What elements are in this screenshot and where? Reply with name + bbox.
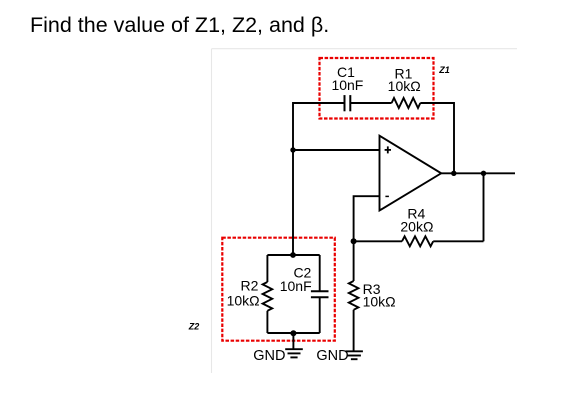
wire: noninverting input [293,149,380,151]
svg-text:GND: GND [316,348,348,364]
wire: R4 left lead [354,240,402,242]
C2 reference label [293,264,311,280]
node label Z1 [438,65,450,75]
wire: R2 top lead [266,255,268,282]
svg-text:R2: R2 [241,277,259,293]
wire: left vertical main [292,150,294,255]
GND label left [253,348,285,364]
C2 value label 10nF [280,278,312,294]
resistor R2 [263,282,273,311]
wire: R4 branch vertical [483,173,485,241]
wire: R3 bottom lead [353,310,355,352]
C1 value label 10nF [331,77,363,93]
C1 reference label [337,64,355,80]
R2 value label 10kΩ [227,292,260,308]
R1 value label 10kΩ [388,78,421,94]
capacitor C2 [311,291,329,297]
R3 reference label [363,281,381,297]
svg-text:Find the value of Z1, Z2, and: Find the value of Z1, Z2, and β. [30,13,329,37]
wire: R1 to feedback corner down to output [420,103,454,173]
svg-text:20kΩ: 20kΩ [400,218,433,234]
wire: output [441,172,515,174]
wire: R4 right lead [433,240,483,242]
node: inverting feedback junction [351,238,357,244]
GND label right [316,348,348,364]
node: output junction at feedback [451,171,456,176]
node: noninverting input junction [290,147,295,152]
ground symbol left [285,349,303,357]
op-amp minus pin mark [385,195,389,197]
svg-text:Z1: Z1 [438,65,450,75]
wire: Z2 network top [267,254,319,256]
R3 value label 10kΩ [363,293,396,309]
node label Z2 [188,322,200,332]
node: Z2 top junction [290,252,296,258]
wire: C2 bottom lead [319,297,321,333]
wire: inverting input [354,196,380,241]
R2 reference label [241,277,259,293]
R4 reference label [407,206,425,222]
node: output junction at R4 branch [481,171,486,176]
wire: C2 top lead [319,255,321,291]
svg-text:10nF: 10nF [280,278,312,294]
svg-text:10kΩ: 10kΩ [363,293,396,309]
svg-text:10nF: 10nF [331,77,363,93]
ground symbol right [346,351,363,359]
wire: C1 to R1 [350,102,391,104]
wire: feedback vertical left segment [293,103,345,150]
R4 value label 20kΩ [400,218,433,234]
node: Z2 bottom junction [290,330,296,336]
op-amp plus pin mark [385,146,391,153]
wire: R2 bottom lead [266,311,268,333]
resistor R1 [392,98,421,108]
svg-text:10kΩ: 10kΩ [227,292,260,308]
capacitor C1 [345,95,351,111]
svg-text:GND: GND [253,348,285,364]
resistor R4 [402,236,433,246]
impedance box Z1 (red dashed) [320,58,434,119]
wire: Z2 network bottom [267,332,319,334]
wire: R3 top lead [353,241,355,281]
title text [30,13,329,37]
svg-text:10kΩ: 10kΩ [388,78,421,94]
R1 reference label [395,65,413,81]
impedance box Z2 (red dashed) [222,238,334,341]
resistor R3 [349,281,359,310]
wire: ground stub left [292,333,294,349]
svg-text:Z2: Z2 [188,322,200,332]
op-amp U1 [380,136,442,211]
